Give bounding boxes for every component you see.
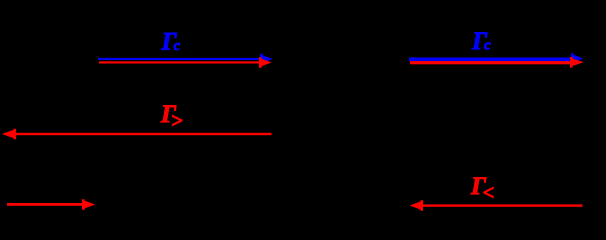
- arrowhead red right (left panel, overlaps blue): [260, 58, 272, 67]
- svg-text:>: >: [171, 109, 183, 133]
- node label Gamma_c (left panel, blue): [161, 29, 181, 56]
- arrowhead blue right (right panel): [572, 54, 584, 63]
- svg-text:c: c: [484, 37, 491, 53]
- wire: blue forward-contour line Gamma_c (right panel): [409, 53, 583, 64]
- wire: red forward-contour line (right panel): [410, 57, 584, 68]
- wire: red forward-contour line (left panel): [99, 57, 272, 68]
- arrowhead red left (Gamma_&gt;): [2, 130, 15, 139]
- wire: blue forward-contour line Gamma_c (left panel): [98, 54, 273, 65]
- svg-text:<: <: [483, 180, 495, 204]
- node label Gamma_c (right panel, blue): [471, 28, 491, 55]
- svg-text:c: c: [174, 38, 181, 54]
- arrowhead red left (Gamma_&lt;): [410, 201, 422, 210]
- arrowhead blue right (left panel): [261, 55, 273, 64]
- node label Gamma_&lt; (right panel, red): [470, 173, 494, 204]
- wire: short red arrow bottom-left (points right): [7, 199, 95, 210]
- node label Gamma_&gt; (left panel, red): [160, 101, 183, 133]
- arrowhead red right (bottom-left): [83, 200, 95, 209]
- wire: red backward arrow Gamma_&lt; (right panel, points left): [410, 200, 583, 211]
- arrowhead red right (right panel, overlaps blue): [571, 58, 584, 67]
- wire: red backward arrow Gamma_&gt; (left panel, points left): [2, 129, 272, 140]
